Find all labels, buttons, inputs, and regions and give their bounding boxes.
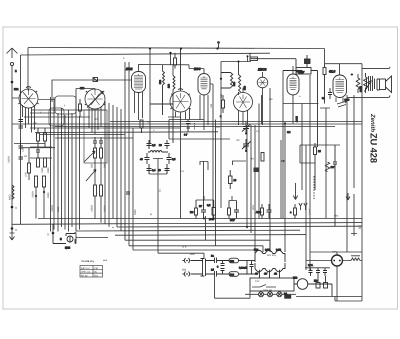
svg-text:JО: JО [24,155,27,158]
choke L8 500 [229,261,254,277]
padder coil L4 [148,151,168,153]
ground [10,230,15,240]
coil L6 [238,61,247,96]
svg-text:5В2: 5В2 [254,249,259,252]
svg-text:БДУ 5,2: БДУ 5,2 [81,267,90,270]
coil L3 [159,71,165,115]
oscillator coil box T2 [84,110,107,163]
power transformer T4 secondary [254,263,285,278]
capacitor C2 left edge [19,157,24,159]
svg-text:100: 100 [33,122,38,125]
wire bracket over R12 C12 [229,196,237,201]
wire CF1 leads [337,252,351,301]
wire left cluster horizontals [30,128,218,158]
svg-text:Е12: Е12 [293,277,298,280]
tube V8 EBC3 capsule [287,70,303,95]
tube V4 triode-hexode [170,49,191,113]
resistor R22 [79,99,82,117]
trimmer dashes [194,123,196,130]
svg-text:0,3В: 0,3В [276,249,281,252]
svg-text:С12: С12 [255,280,260,283]
coil L3b [150,76,175,144]
wire osc cluster frame [149,140,167,252]
capacitor C14 x335 [333,145,337,226]
component small box on bus [250,53,258,61]
wire bus A drop right [324,49,326,64]
svg-text:500: 500 [159,79,162,84]
choke L7 500 [229,258,254,263]
svg-text:500: 500 [230,274,235,277]
svg-text:GL6: GL6 [329,70,335,74]
wire V1 cathode leads [23,105,35,133]
wire middle bundle verticals [105,62,133,250]
svg-text:10000: 10000 [91,205,94,212]
motor CF1 [332,251,343,267]
svg-text:0У: 0У [199,205,202,208]
trimmer capacitor C7 [167,153,176,164]
wire bottom rail [296,297,362,302]
wire V6 leads [239,88,248,126]
svg-text:300: 300 [244,85,247,90]
svg-text:2М: 2М [287,131,290,134]
svg-text:300: 300 [220,93,223,98]
svg-text:+: + [351,73,353,77]
tube V7 EBC3 small [257,68,268,88]
svg-text:ЦЕП: ЦЕП [65,247,70,250]
diode D1 below GL6 [336,98,347,108]
variable arrow left cluster [84,151,95,162]
coil L5 [220,73,236,89]
capacitor C20 [316,268,320,276]
resistor R13 [256,204,264,219]
cable label rotated [267,159,362,257]
trimmer capacitor C4 [147,140,156,149]
wire antenna lead down left edge [12,66,19,229]
power input plug [183,258,203,277]
resistor R17 hanging from bus B [174,53,177,69]
wire V3 top link [139,65,205,76]
fuse BA [284,293,291,299]
node bus tap 217 [216,47,218,49]
label mid left mkv [103,259,108,262]
pilot lamp LP2 [268,292,273,297]
svg-text:10000: 10000 [51,205,54,212]
svg-text:АЕО: АЕО [256,211,261,214]
svg-text:СУ: СУ [255,273,259,276]
svg-text:ОУ: ОУ [264,273,268,276]
wire osc section drops [150,49,171,144]
lamp box [250,278,294,291]
wire speaker top feed [362,67,390,69]
svg-text:ЗОУ: ЗОУ [230,219,235,222]
resistor R7 top bus [217,41,220,48]
resistor R11 [207,200,216,221]
misc value labels [22,57,302,229]
svg-text:500: 500 [230,260,235,263]
wire pickup to chassis [75,233,108,244]
resistor R14 [290,204,297,219]
wire lamp row [215,277,297,299]
wire supply line 3 [133,250,255,253]
node pickup junction [47,224,54,236]
wire heater bus [117,225,362,228]
resistor R5 below V3 [140,120,143,133]
svg-text:0,1мкФ: 0,1мкФ [239,267,247,270]
output transformer T3 [365,76,375,92]
resistor R3 with vertical label 1000 [37,158,45,173]
resistor R16 zigzag [351,256,362,261]
title Zenith [368,113,378,163]
capacitor on bundle line [126,192,130,194]
wire speaker bottom feed [347,95,390,97]
capacitor C19 [309,268,313,276]
switch contacts PV [314,276,328,288]
svg-text:2000: 2000 [47,192,50,198]
wire chassis bus long [12,223,362,225]
tube V6 output driver [234,93,253,112]
tube V2 heptode [80,87,105,109]
pilot lamp LP3 [277,292,282,297]
svg-text:85В: 85В [182,269,187,272]
switch bank S1 top right [250,55,318,74]
svg-text:Zenith: Zenith [369,113,376,132]
label C12 [182,246,260,284]
node antenna junction [11,81,14,84]
wire psu top rail [310,251,362,253]
svg-text:6800: 6800 [9,194,12,200]
svg-text:6,3В: 6,3В [265,249,270,252]
svg-text:ПIЛ6,3В: ПIЛ6,3В [263,289,272,292]
svg-text:4В: 4В [274,273,277,276]
wire V5 leads [200,95,208,130]
wire V5 top stub [203,69,205,74]
wire psu left feed [158,252,204,259]
svg-text:ЦРА: ЦРА [308,264,313,267]
wire extra right verticals [281,140,326,270]
resistor R21 small [229,170,237,189]
capacitor C12 [230,201,239,223]
pickup jack P1 [53,232,75,250]
resistor R2 [44,128,47,147]
capacitor C3 [36,147,40,158]
capacitor C11 [199,200,206,219]
svg-text:ВА: ВА [284,293,288,296]
resistor R18 [220,95,225,118]
svg-text:5К2: 5К2 [94,274,99,277]
svg-text:ЧЕМУ: ЧЕМУ [298,71,305,74]
wire bus B vertical left [20,55,22,224]
svg-text:100У: 100У [209,218,215,221]
svg-text:300: 300 [91,163,94,168]
svg-text:10Т: 10Т [94,118,99,121]
resistor R15 right area [314,143,322,190]
connector forks right [299,203,307,210]
wire top bus B [21,53,271,55]
mains switch S3 [201,259,215,277]
wire AVC bus long [12,122,362,127]
resistor R12 [228,201,231,219]
wire right area frame [300,145,340,163]
wire V8 plate link [283,104,330,146]
wire V3 leads [135,92,143,120]
coupling line mid left [24,110,133,138]
pilot lamp LP1 [259,292,264,297]
node bus tap 170 [169,52,171,54]
wire V8 leads [285,66,293,252]
wire screen drop x213 [210,71,302,219]
node AVC junction [284,122,286,124]
wire V4 sub-cluster [168,117,230,139]
node bus tap 181 [180,47,182,49]
wire tuning gang bus (left bundle) [51,89,80,232]
wire supply line 1 [125,240,270,252]
inductor L1 left edge 6800 [8,122,38,200]
wire x310 vertical [309,75,311,270]
resistor R19 pair upper [91,148,107,168]
resistor R8 [318,64,327,147]
trimmer capacitor C5 [159,140,170,149]
svg-text:1М: 1М [216,126,219,129]
capacitor C10 left of GL6 [322,88,332,100]
wire right rail x362 [361,64,363,301]
svg-text:щ: щ [112,226,114,229]
svg-text:100: 100 [168,83,171,88]
wire supply line 2 [129,246,263,252]
tube V1 EK2 [14,87,39,108]
tube V3 EF2 capsule [126,67,146,93]
svg-text:2000: 2000 [134,209,137,215]
resistor R9 right of GL6 [356,74,362,93]
node ground-bus junction [11,206,17,210]
tube V9 GL6 output capsule [329,70,347,98]
svg-text:ЗОО: ЗОО [252,205,255,210]
resistor cluster RA [14,144,55,219]
wire bottom right caps row feed [305,261,332,268]
capacitor C21 [323,268,327,276]
svg-text:ПВ: ПВ [314,280,318,283]
svg-text:100: 100 [22,147,25,152]
capacitor C1 left edge [19,140,24,154]
motor M1 circle [293,277,332,297]
trimmer capacitor C8 [147,164,156,174]
trimmer capacitor C9 [158,164,170,174]
wire pickup line [76,230,306,235]
svg-text:ЗЧ-128 кГц: ЗЧ-128 кГц [81,260,94,263]
wire V7 stubs [263,72,271,252]
wire screen bus long [38,218,362,220]
svg-text:ZU 428: ZU 428 [368,133,378,163]
svg-text:3С: 3С [94,271,97,274]
resistor R20 pair lower [91,158,107,223]
IF transformer T1 box [38,96,76,126]
svg-text:ф: ф [150,213,152,216]
antenna [7,48,18,73]
svg-text:ПЧУ 1,6: ПЧУ 1,6 [81,271,90,274]
capacitor C22 under V4 [184,120,191,137]
svg-text:ОК: ОК [281,159,285,163]
node chassis junction [11,227,17,232]
wire right-mid bundle [247,125,255,250]
variable core arrow [86,170,96,182]
capacitor C18 0.1 [239,261,254,275]
capacitor C16 plus [211,255,229,264]
svg-text:50У 5ГЦ: 50У 5ГЦ [267,254,276,257]
svg-text:10000: 10000 [32,191,35,198]
svg-text:2М: 2М [269,98,272,101]
svg-text:216: 216 [94,267,99,270]
wire V2 leads [89,107,101,135]
svg-text:100: 100 [210,103,213,108]
svg-text:1М5: 1М5 [25,172,28,177]
wire bracket over R10 R11 [196,161,248,246]
svg-text:ВУ 3С: ВУ 3С [81,274,88,277]
wire bus A drop to V1 [27,48,29,91]
speaker LS1 [377,76,392,93]
wire V9 top stub [325,64,363,75]
power transformer T4 primary [254,249,285,263]
svg-text:5000: 5000 [57,206,60,212]
node bus tap 150 [149,47,151,49]
label pilot lamps [263,289,272,292]
resistor R10 [190,200,198,219]
wire x347 vertical [325,95,347,252]
wire line with coupling box [52,80,131,102]
svg-text:1000: 1000 [41,167,44,173]
svg-text:ЛО: ЛО [236,139,240,142]
table frequency chart [80,260,103,277]
tube V5 EF6 capsule [194,67,210,95]
wire top bus A [28,48,325,49]
resistor R9b [345,73,368,102]
crystal X1 on line [93,78,98,82]
svg-text:2000: 2000 [47,167,50,173]
svg-text:Т-УчТ: Т-УчТ [309,208,312,215]
capacitor C23 left edge [19,120,24,129]
svg-text:ЕО: ЕО [190,211,194,214]
switch S2 [252,285,276,288]
wire screen grid feed [221,55,251,208]
trimmer capacitor C6 [140,153,150,164]
wire osc mid tap [153,159,163,163]
svg-text:500: 500 [233,81,236,86]
svg-text:ЕК2: ЕК2 [14,88,19,91]
capacitor C13 [267,204,272,219]
potentiometer arrow x354 [346,95,357,236]
svg-text:ЕФ6: ЕФ6 [194,67,201,71]
wire V4 leads [176,109,190,219]
svg-text:10000: 10000 [8,156,11,163]
label mid right dash [190,253,195,256]
resistor R1 [37,128,40,147]
svg-text:ЕВС3: ЕВС3 [258,68,267,72]
resistor R4 with vertical label 2000 [44,158,51,173]
capacitor pair mid psu [217,261,225,275]
volume wiper arrow [293,183,297,200]
capacitor C17 plus [211,269,229,277]
IF trimmer caps in box [93,137,103,148]
